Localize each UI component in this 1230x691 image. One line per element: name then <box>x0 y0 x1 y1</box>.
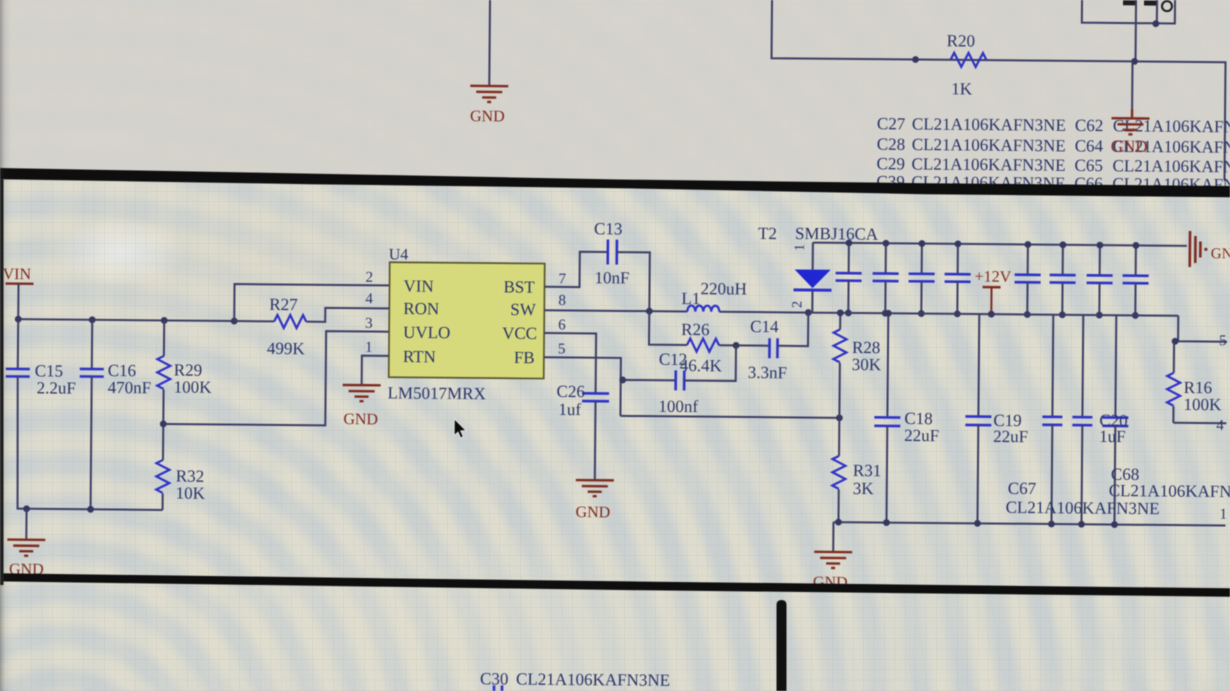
svg-text:BST: BST <box>503 277 535 296</box>
node top rail C29 <box>918 240 925 247</box>
node top rail C62 <box>1024 241 1031 248</box>
node junction at x916 <box>912 56 919 63</box>
svg-text:100K: 100K <box>1183 395 1222 414</box>
wire C13 to SW node <box>616 252 650 311</box>
wire C26 to gnd <box>594 401 597 479</box>
value label C30 <box>480 669 670 690</box>
value label row C27/C62 <box>877 114 1230 136</box>
svg-text:GND: GND <box>575 504 610 521</box>
node top rail C39 <box>954 240 961 247</box>
power +12V <box>974 269 1011 315</box>
wire stub in top box <box>1156 0 1158 23</box>
node sw rail C64 <box>1059 311 1066 318</box>
svg-text:100nf: 100nf <box>658 397 698 416</box>
node FB rail / R28 <box>836 414 843 421</box>
inductor L1 <box>681 279 747 312</box>
ground top center <box>470 86 508 126</box>
capacitor C27 (bank) <box>835 243 862 313</box>
svg-text:4: 4 <box>365 291 373 307</box>
svg-text:100K: 100K <box>174 378 213 397</box>
svg-text:1uf: 1uf <box>558 400 581 419</box>
svg-text:C64: C64 <box>1075 136 1104 155</box>
ground C26 <box>575 480 613 521</box>
wire gnd stub R31 <box>832 522 834 551</box>
node R26/C14/C12 <box>733 342 740 349</box>
node C18 top <box>885 310 892 317</box>
svg-text:VIN: VIN <box>3 266 32 283</box>
wire top-right box <box>1082 0 1175 23</box>
power bar GND right (sideways) <box>1190 231 1230 267</box>
top screen strip (more uniform gray above upper black band) <box>0 0 1230 186</box>
node SW/C13 <box>646 308 653 315</box>
node +12V <box>988 311 995 318</box>
svg-text:30K: 30K <box>852 355 882 374</box>
node C20 bottom <box>1111 521 1118 528</box>
capacitor C66 (bank) <box>1122 245 1149 315</box>
wire bottom-left rail <box>17 509 163 510</box>
capacitor C39 (bank) <box>944 244 971 314</box>
svg-text:2: 2 <box>366 270 374 286</box>
wire VCC to C26 <box>544 333 597 393</box>
svg-text:R20: R20 <box>947 31 976 50</box>
svg-text:C62: C62 <box>1075 116 1104 135</box>
svg-text:C67: C67 <box>1008 479 1037 498</box>
node C67 bottom <box>1048 521 1055 528</box>
node rail R31 <box>835 519 842 526</box>
svg-text:C29: C29 <box>877 154 906 173</box>
wire vertical from top part down to R20 net <box>1135 0 1138 61</box>
node SW/diode <box>805 309 812 316</box>
node bus x95 <box>89 316 96 323</box>
ground top-right (over text) <box>1111 109 1150 156</box>
wire gnd stub <box>25 509 27 539</box>
transistor partial body top-right (clipped part) <box>1123 0 1172 11</box>
wire output top rail <box>813 243 1187 246</box>
resistor R27 <box>234 295 390 359</box>
svg-text:+12V: +12V <box>975 269 1012 286</box>
wire BST to C13 <box>545 251 608 287</box>
svg-text:RON: RON <box>403 299 439 318</box>
capacitor C20 <box>1098 315 1129 525</box>
wire SW output rail right <box>808 313 1178 316</box>
node FB/C12 <box>619 377 626 384</box>
wire pin4 line <box>1173 422 1226 424</box>
svg-text:C26: C26 <box>557 382 586 401</box>
svg-text:1: 1 <box>1219 507 1227 523</box>
node top rail C66 <box>1132 242 1139 249</box>
svg-text:499K: 499K <box>267 339 306 358</box>
resistor R32 <box>156 424 206 510</box>
capacitor C62 (bank) <box>1014 244 1041 314</box>
svg-text:470nF: 470nF <box>108 378 152 397</box>
node top rail C65 <box>1096 242 1103 249</box>
wire R26 to C14 <box>719 344 769 346</box>
svg-text:22uF: 22uF <box>904 426 939 445</box>
svg-text:2.2uF: 2.2uF <box>37 378 76 397</box>
svg-text:C14: C14 <box>750 317 779 336</box>
svg-text:7: 7 <box>559 271 567 287</box>
svg-text:R27: R27 <box>269 295 298 314</box>
capacitor C12 <box>659 350 723 391</box>
wire SW line <box>544 310 808 312</box>
svg-text:3.3nF: 3.3nF <box>748 363 787 382</box>
svg-text:VIN: VIN <box>403 277 433 296</box>
node junction at x1136 <box>1131 58 1138 65</box>
wire top GND stub <box>488 0 491 85</box>
svg-text:1: 1 <box>365 340 373 356</box>
svg-text:C65: C65 <box>1075 156 1104 175</box>
svg-text:2: 2 <box>790 301 805 308</box>
diode T2 SMBJ16CA <box>757 224 879 314</box>
left screen edge <box>0 179 4 585</box>
wire bottom output rail <box>833 522 1225 525</box>
svg-text:FB: FB <box>514 348 535 367</box>
wire main input bus <box>18 319 234 321</box>
node bus x167 <box>161 317 168 324</box>
node rail C16 <box>87 506 94 513</box>
capacitor C28 (bank) <box>872 243 899 313</box>
svg-text:CL21A106KAFN3NE: CL21A106KAFN3NE <box>1006 498 1160 518</box>
svg-text:GND: GND <box>1211 246 1230 262</box>
node sw rail C29 <box>918 310 925 317</box>
node top rail C27 <box>845 239 852 246</box>
wire pin5 line <box>1178 316 1227 342</box>
svg-text:SMBJ16CA: SMBJ16CA <box>795 224 879 244</box>
wire FB net <box>543 357 621 416</box>
svg-text:UVLO: UVLO <box>403 323 450 342</box>
svg-text:GND: GND <box>1111 137 1148 156</box>
svg-text:R26: R26 <box>681 320 710 339</box>
svg-text:GND: GND <box>343 411 378 428</box>
svg-text:CL21A106KAFN3NE: CL21A106KAFN3NE <box>912 135 1066 155</box>
svg-text:6: 6 <box>558 317 566 333</box>
ground output <box>813 552 852 592</box>
svg-text:1: 1 <box>793 244 808 251</box>
svg-text:46.4K: 46.4K <box>680 356 723 375</box>
node R28 top <box>837 309 844 316</box>
wire 100nf rail to R28 <box>620 416 839 418</box>
resistor R20 <box>946 31 987 98</box>
capacitor C67 <box>1041 315 1063 524</box>
resistor R29 <box>157 320 213 424</box>
node on top box line <box>1152 20 1159 27</box>
node sw rail C65 <box>1096 312 1103 319</box>
ground RTN <box>342 385 380 428</box>
capacitor C15 <box>5 319 77 509</box>
svg-text:10K: 10K <box>176 484 206 503</box>
wire bus to pin2 <box>234 284 389 322</box>
svg-text:RTN: RTN <box>403 347 436 366</box>
svg-text:8: 8 <box>558 293 566 309</box>
svg-text:4: 4 <box>1216 418 1224 434</box>
svg-text:U4: U4 <box>389 246 409 263</box>
capacitor C19 <box>964 314 1029 524</box>
svg-text:C27: C27 <box>877 114 906 133</box>
node top rail C28 <box>882 240 889 247</box>
svg-text:SW: SW <box>510 300 537 319</box>
node C18 bottom <box>883 519 890 526</box>
resistor R31 <box>832 418 882 523</box>
photo band upper <box>0 168 1230 197</box>
node sw rail C39 <box>954 310 961 317</box>
capacitor C30 (clipped) <box>494 685 502 691</box>
photo vertical bar bottom <box>777 600 787 691</box>
capacitor C65 (bank) <box>1086 245 1113 315</box>
svg-text:R31: R31 <box>853 461 882 480</box>
node top rail C64 <box>1059 241 1066 248</box>
value label C68 <box>1109 465 1230 502</box>
node sw rail C66 <box>1132 312 1139 319</box>
svg-text:L1: L1 <box>681 289 700 308</box>
capacitor C68b <box>1071 315 1093 524</box>
node rail GND stub <box>23 505 30 512</box>
mouse cursor <box>454 419 466 438</box>
capacitor C64 (bank) <box>1049 245 1076 315</box>
node R29/R32 <box>160 421 167 428</box>
wire R20 net: from top edge down and right <box>770 0 1226 181</box>
svg-text:VCC: VCC <box>502 324 537 343</box>
wire R26 branch <box>649 311 687 345</box>
wire RTN to gnd <box>362 356 389 385</box>
svg-text:T2: T2 <box>758 224 777 243</box>
power port VIN <box>2 266 33 319</box>
node R16 tap <box>1172 338 1179 345</box>
capacitor C18 <box>873 313 940 523</box>
capacitor C14 <box>748 317 788 382</box>
photo band lower <box>0 573 1230 596</box>
resistor R16 <box>1167 341 1223 423</box>
capacitor C29 (bank) <box>908 243 935 313</box>
svg-text:5: 5 <box>558 341 566 357</box>
capacitor C16 <box>79 320 152 510</box>
svg-text:10nF: 10nF <box>595 268 630 287</box>
op-amp U4 LM5017MRX body <box>388 246 545 403</box>
svg-text:C13: C13 <box>594 219 623 238</box>
node sw rail C27 <box>845 309 852 316</box>
wire C12 up to R26 out <box>684 345 736 381</box>
svg-text:3K: 3K <box>853 479 875 498</box>
node bus x21 <box>15 316 22 323</box>
node C19 bottom <box>974 520 981 527</box>
svg-text:5: 5 <box>1219 333 1227 349</box>
capacitor C13 <box>594 219 631 287</box>
value label C67 <box>1006 479 1160 518</box>
wire down to GND C64 <box>1131 61 1133 108</box>
value label row C29/C65 <box>877 154 1230 176</box>
resistor R26 <box>681 320 719 352</box>
svg-text:1uF: 1uF <box>1099 427 1126 446</box>
node bus x237 <box>231 318 238 325</box>
svg-text:3: 3 <box>365 316 373 332</box>
svg-text:C28: C28 <box>877 135 906 154</box>
node C68b bottom <box>1078 521 1085 528</box>
value label row C39/C66 <box>876 172 1230 194</box>
wire UVLO link <box>163 330 389 426</box>
ground bottom-left <box>7 540 45 579</box>
svg-text:220uH: 220uH <box>700 279 746 298</box>
svg-text:GND: GND <box>470 108 505 125</box>
wire C14 up to SW <box>778 312 809 346</box>
svg-text:CL21A106KAFN3NE: CL21A106KAFN3NE <box>1109 481 1230 501</box>
svg-text:22uF: 22uF <box>993 427 1028 446</box>
wire C12 branch <box>621 379 676 381</box>
value label row C28/C64 <box>877 135 1230 157</box>
node sw rail C28 <box>882 310 889 317</box>
capacitor C26 <box>556 382 609 419</box>
svg-text:LM5017MRX: LM5017MRX <box>388 383 486 403</box>
svg-text:CL21A106KAFN3NE: CL21A106KAFN3NE <box>912 114 1066 134</box>
svg-text:CL21A106KAFN3NE: CL21A106KAFN3NE <box>516 670 670 690</box>
svg-text:1K: 1K <box>951 79 973 98</box>
resistor R28 <box>833 313 882 418</box>
node sw rail C62 <box>1024 311 1031 318</box>
